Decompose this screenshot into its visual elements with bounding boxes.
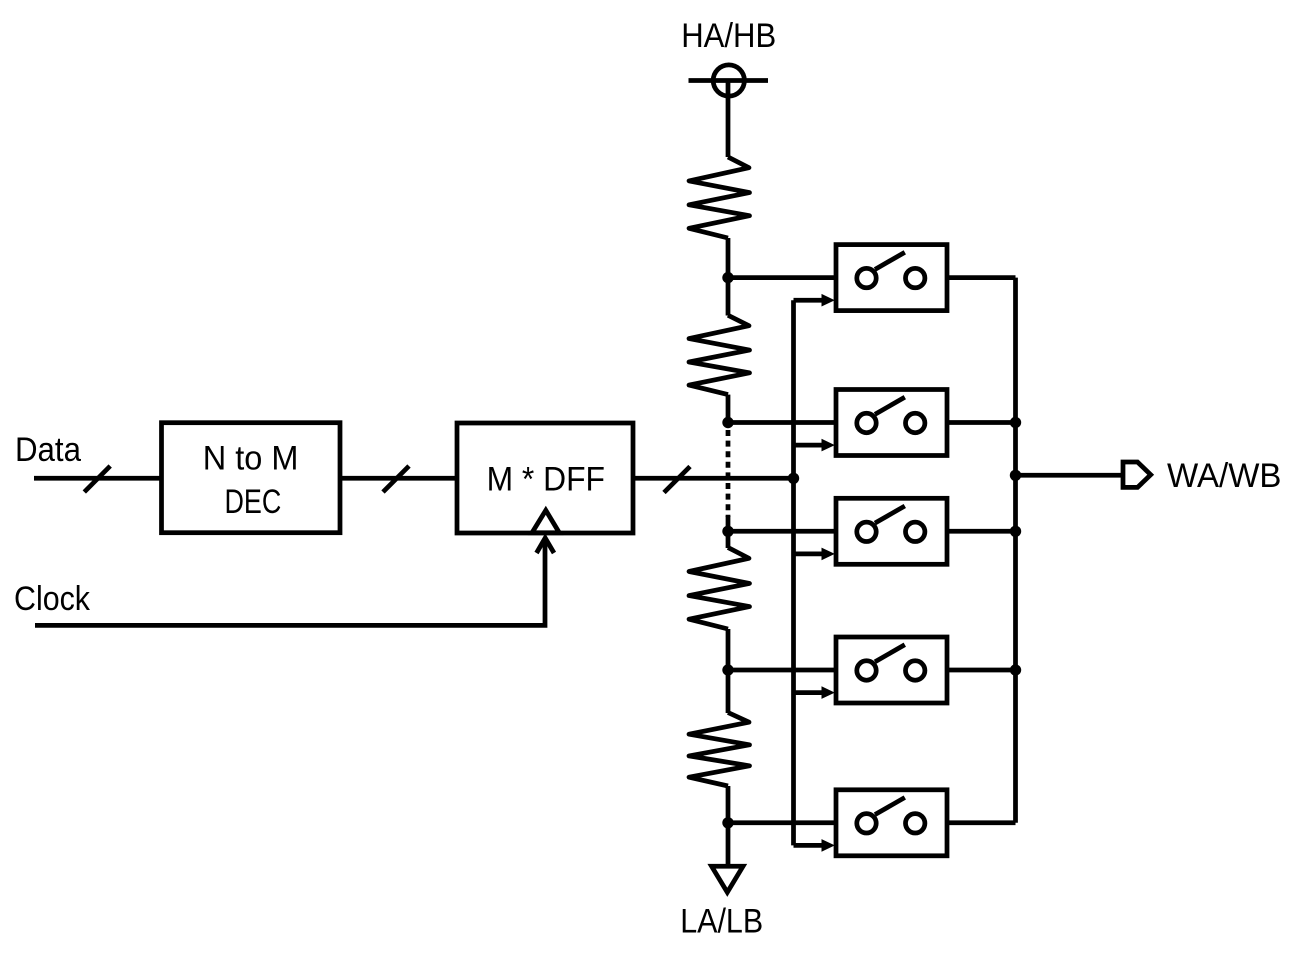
svg-text:HA/HB: HA/HB [681, 17, 776, 55]
svg-text:N to M: N to M [203, 440, 299, 478]
svg-text:M * DFF: M * DFF [487, 461, 605, 499]
svg-text:WA/WB: WA/WB [1167, 457, 1282, 495]
svg-text:Clock: Clock [14, 580, 91, 618]
svg-text:LA/LB: LA/LB [680, 903, 763, 941]
svg-text:DEC: DEC [225, 483, 282, 521]
svg-text:Data: Data [15, 431, 81, 469]
